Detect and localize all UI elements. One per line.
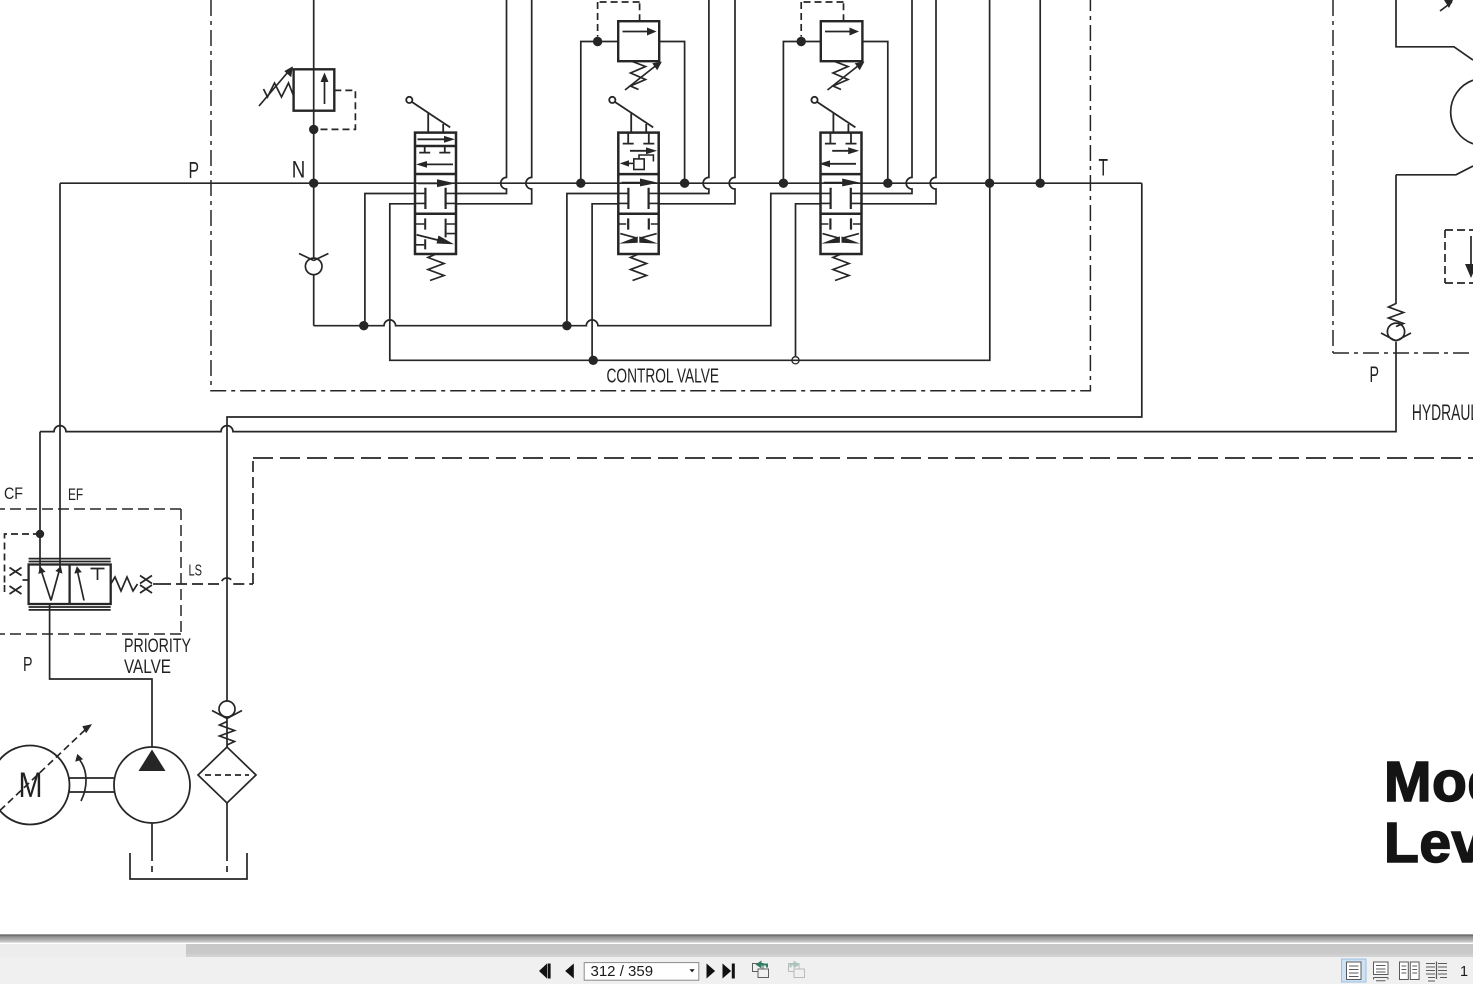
svg-text:1: 1 <box>1460 964 1468 980</box>
svg-text:312 / 359: 312 / 359 <box>591 963 654 980</box>
svg-text:T: T <box>1099 155 1109 182</box>
svg-text:N: N <box>292 156 306 183</box>
svg-text:HYDRAULIC: HYDRAULIC <box>1412 400 1473 425</box>
svg-text:CF: CF <box>4 484 23 503</box>
svg-text:EF: EF <box>68 485 83 504</box>
svg-text:P: P <box>189 157 200 183</box>
svg-text:LS: LS <box>189 563 203 580</box>
svg-text:VALVE: VALVE <box>124 657 171 678</box>
svg-text:CONTROL VALVE: CONTROL VALVE <box>607 365 720 388</box>
svg-text:P: P <box>1370 362 1380 387</box>
svg-text:M: M <box>19 766 43 805</box>
svg-text:P: P <box>23 654 33 676</box>
svg-text:PRIORITY: PRIORITY <box>124 636 191 657</box>
